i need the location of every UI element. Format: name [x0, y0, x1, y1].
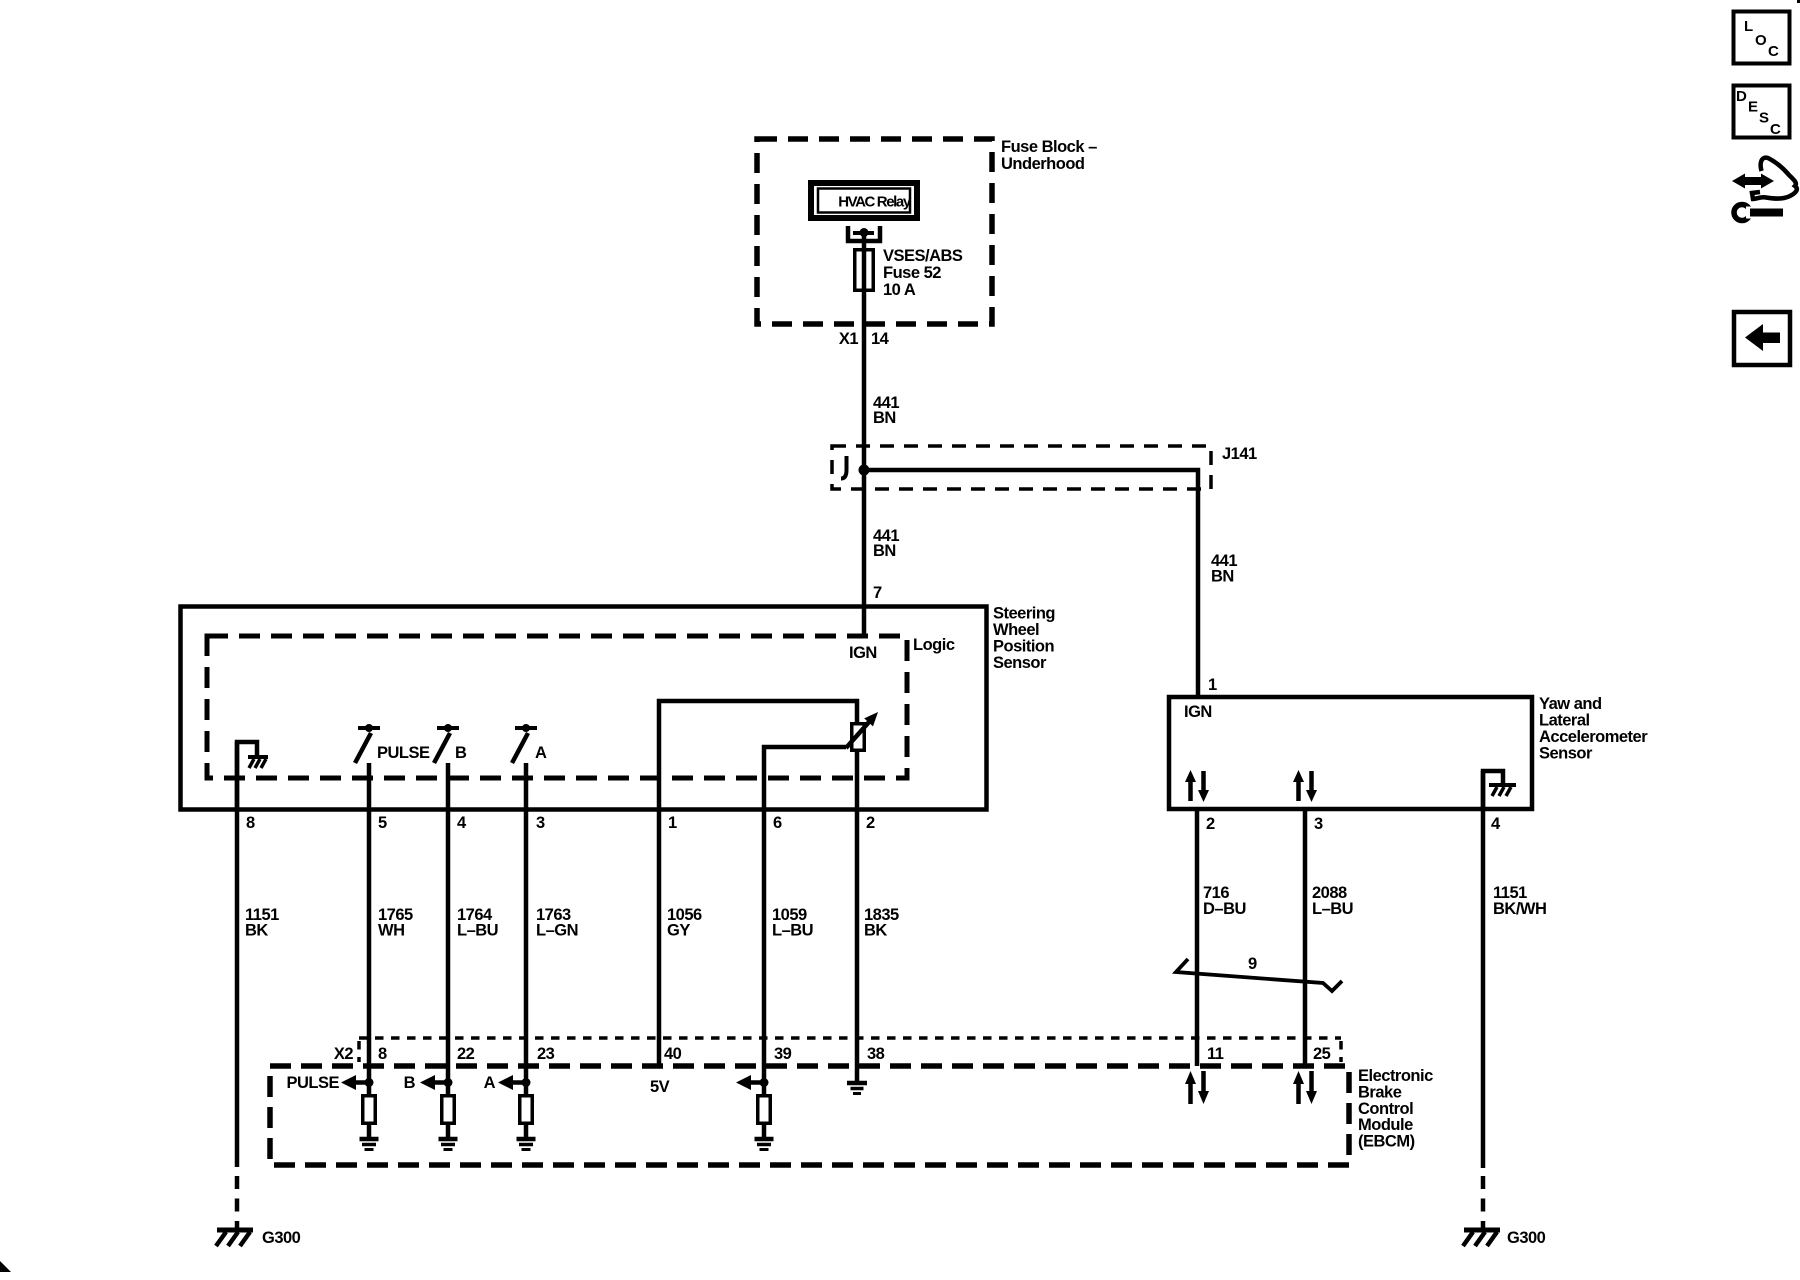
- logic dashed box: [207, 636, 907, 778]
- svg-text:4: 4: [1491, 815, 1501, 833]
- wire 1764 L-BU label: [457, 906, 498, 940]
- bidirectional signal arrows EBCM 11: [1185, 1071, 1209, 1104]
- svg-text:6: 6: [773, 814, 782, 832]
- wire yaw pin2 to EBCM 11: [1195, 809, 1200, 1066]
- wire yaw pin4 ground run: [1481, 771, 1486, 1230]
- resistor R pullup pin22: [442, 1096, 455, 1137]
- svg-text:10 A: 10 A: [883, 281, 916, 299]
- svg-text:Module: Module: [1358, 1116, 1413, 1134]
- splice J141 dashed box: [832, 446, 1211, 489]
- svg-text:7: 7: [873, 584, 882, 602]
- wire yaw pin3 to EBCM 25: [1303, 809, 1308, 1066]
- wire 441 BN label right branch: [1211, 552, 1237, 586]
- ground symbol below R pin8: [360, 1139, 379, 1150]
- svg-text:Sensor: Sensor: [1539, 745, 1593, 763]
- wire 441 BN label lower left: [873, 527, 899, 560]
- svg-text:B: B: [404, 1074, 416, 1092]
- switch A: [512, 724, 547, 763]
- ground symbol below R pin39: [755, 1139, 774, 1150]
- svg-text:B: B: [455, 744, 467, 762]
- wire 716 D-BU label: [1203, 884, 1246, 918]
- wire pin4 B to EBCM 22: [446, 763, 451, 1094]
- wire 1763 L-GN label: [536, 906, 578, 940]
- fuse block underhood dashed box: [757, 139, 992, 324]
- svg-text:J141: J141: [1222, 445, 1257, 463]
- svg-text:BK/WH: BK/WH: [1493, 900, 1546, 918]
- wire sensor pin8 ground run: [235, 742, 240, 1230]
- svg-text:14: 14: [871, 330, 890, 348]
- potentiometer wiper feed wire: [764, 747, 846, 809]
- resistor R pullup pin23: [520, 1096, 533, 1137]
- svg-text:1: 1: [668, 814, 677, 832]
- resistor R pullup pin39: [758, 1096, 771, 1137]
- bidirectional signal arrows yaw pin3: [1293, 770, 1317, 802]
- wire 1059 L-BU label: [772, 906, 813, 940]
- ground symbol below R pin23: [517, 1139, 536, 1150]
- svg-text:Position: Position: [993, 638, 1055, 656]
- svg-text:Accelerometer: Accelerometer: [1539, 728, 1648, 746]
- sensor pin labels 8 5 4 3 1 6 2: [246, 814, 875, 832]
- svg-text:40: 40: [664, 1045, 682, 1063]
- svg-text:IGN: IGN: [849, 644, 877, 662]
- svg-text:X1: X1: [839, 330, 859, 348]
- wire pin6 into EBCM 39: [762, 809, 767, 1094]
- wire pin1 to EBCM 40: [657, 809, 662, 1066]
- wire branch from J141 to yaw sensor: [864, 470, 1198, 697]
- internal ground hook yaw sensor: [1483, 771, 1516, 809]
- twisted pair symbol 9: [1176, 955, 1342, 991]
- wire pin2 pot to EBCM 38: [855, 752, 860, 1081]
- svg-text:VSES/ABS: VSES/ABS: [883, 247, 963, 265]
- svg-text:BN: BN: [873, 542, 896, 560]
- svg-text:L–BU: L–BU: [457, 922, 498, 940]
- ground symbol below R pin22: [439, 1139, 458, 1150]
- svg-text:D: D: [1736, 88, 1747, 105]
- logic label: [913, 636, 955, 654]
- signal arrow A: [484, 1074, 531, 1092]
- splice clip symbol: [841, 456, 847, 479]
- svg-text:Steering: Steering: [993, 605, 1055, 623]
- page corner mark top right: [1797, 0, 1800, 3]
- svg-text:A: A: [535, 744, 547, 762]
- svg-text:D–BU: D–BU: [1203, 900, 1246, 918]
- svg-text:Lateral: Lateral: [1539, 712, 1590, 730]
- svg-text:23: 23: [537, 1045, 555, 1063]
- svg-text:Logic: Logic: [913, 636, 955, 654]
- icon back arrow box: [1734, 312, 1790, 365]
- wire 1056 GY label: [667, 906, 702, 940]
- wire 2088 L-BU label: [1312, 884, 1353, 918]
- switch B: [434, 724, 467, 763]
- svg-text:A: A: [484, 1074, 496, 1092]
- yaw and lateral accelerometer sensor box: [1169, 697, 1532, 809]
- EBCM label: [1358, 1067, 1433, 1151]
- page corner mark bottom left: [0, 1261, 11, 1272]
- wire 1151 BK label: [245, 906, 279, 940]
- ground G300 right: [1463, 1229, 1546, 1247]
- wire 1835 BK label: [864, 906, 899, 940]
- wire pin5 PULSE to EBCM 8: [367, 763, 372, 1094]
- signal arrow PULSE: [286, 1074, 373, 1092]
- svg-text:11: 11: [1207, 1045, 1224, 1063]
- steering wheel position sensor box: [181, 607, 987, 810]
- resistor R pullup pin8: [363, 1096, 376, 1137]
- fuse 52 value label: [883, 247, 963, 299]
- node IGN steering sensor: [849, 644, 877, 662]
- svg-text:L: L: [1744, 18, 1753, 35]
- electronic brake control module dashed box: [270, 1066, 1349, 1165]
- svg-text:4: 4: [457, 814, 467, 832]
- junction dot J141: [859, 465, 870, 476]
- svg-text:HVAC Relay: HVAC Relay: [838, 194, 912, 211]
- svg-text:G300: G300: [262, 1229, 301, 1247]
- yaw pin labels 2 3 4: [1206, 815, 1501, 833]
- pin 7 label: [873, 584, 882, 602]
- ground G300 left: [216, 1229, 301, 1247]
- svg-text:Electronic: Electronic: [1358, 1067, 1433, 1085]
- splice J141 label: [1222, 445, 1257, 463]
- pin 1 label yaw: [1208, 676, 1217, 694]
- potentiometer R position sensor: [846, 712, 878, 750]
- svg-text:L–BU: L–BU: [1312, 900, 1353, 918]
- wire 441 BN label upper: [873, 394, 899, 427]
- svg-text:BK: BK: [864, 922, 887, 940]
- switch PULSE: [355, 724, 430, 763]
- svg-text:(EBCM): (EBCM): [1358, 1133, 1415, 1151]
- icon DESC box: [1734, 86, 1790, 139]
- svg-text:G300: G300: [1507, 1229, 1546, 1247]
- potentiometer loop top wire: [659, 701, 857, 809]
- svg-text:Underhood: Underhood: [1001, 155, 1085, 173]
- bidirectional signal arrows EBCM 25: [1293, 1071, 1317, 1104]
- connector X1 pin 14 labels: [839, 330, 890, 348]
- svg-text:2: 2: [866, 814, 875, 832]
- svg-text:Sensor: Sensor: [993, 654, 1047, 672]
- svg-text:Wheel: Wheel: [993, 621, 1039, 639]
- svg-text:8: 8: [378, 1045, 387, 1063]
- connector X2 dotted line: [359, 1038, 1341, 1062]
- svg-text:GY: GY: [667, 922, 690, 940]
- svg-text:WH: WH: [378, 922, 405, 940]
- svg-text:BN: BN: [873, 409, 896, 427]
- yaw sensor label: [1539, 695, 1648, 763]
- signal arrow B: [404, 1074, 453, 1092]
- svg-text:L–GN: L–GN: [536, 922, 578, 940]
- ground symbol pin38: [847, 1083, 867, 1094]
- connector X2 label: [334, 1045, 354, 1063]
- svg-text:L–BU: L–BU: [772, 922, 813, 940]
- wire pin3 A to EBCM 23: [524, 763, 529, 1094]
- relay K HVAC Relay: [811, 183, 917, 218]
- svg-text:C: C: [1770, 121, 1781, 138]
- svg-text:C: C: [1768, 43, 1779, 60]
- svg-text:25: 25: [1313, 1045, 1331, 1063]
- svg-text:IGN: IGN: [1184, 703, 1212, 721]
- svg-text:3: 3: [1314, 815, 1323, 833]
- svg-text:2: 2: [1206, 815, 1215, 833]
- svg-text:O: O: [1755, 32, 1767, 49]
- svg-text:3: 3: [536, 814, 545, 832]
- svg-text:E: E: [1748, 99, 1758, 116]
- svg-text:5V: 5V: [650, 1078, 670, 1096]
- wire 1151 BK/WH label: [1493, 884, 1546, 918]
- svg-text:8: 8: [246, 814, 255, 832]
- svg-text:X2: X2: [334, 1045, 354, 1063]
- internal ground hook steering sensor: [237, 742, 268, 809]
- connector terminal below relay: [846, 226, 882, 241]
- steering wheel position sensor label: [993, 605, 1055, 673]
- icon LOC box: [1734, 12, 1790, 64]
- node IGN yaw sensor: [1184, 703, 1212, 721]
- svg-text:Control: Control: [1358, 1100, 1413, 1118]
- svg-text:Fuse Block –: Fuse Block –: [1001, 138, 1097, 156]
- svg-text:PULSE: PULSE: [377, 744, 430, 762]
- svg-text:39: 39: [774, 1045, 792, 1063]
- svg-text:PULSE: PULSE: [286, 1074, 339, 1092]
- fuse block label: [1001, 138, 1097, 173]
- svg-text:Brake: Brake: [1358, 1083, 1402, 1101]
- svg-text:Yaw and: Yaw and: [1539, 695, 1602, 713]
- svg-text:S: S: [1759, 110, 1769, 127]
- svg-text:1: 1: [1208, 676, 1217, 694]
- svg-text:BK: BK: [245, 922, 268, 940]
- icon connector tool: [1732, 158, 1797, 221]
- svg-text:Fuse 52: Fuse 52: [883, 264, 941, 282]
- fuse F52 VSES/ABS 10A: [855, 250, 874, 291]
- svg-text:BN: BN: [1211, 568, 1234, 586]
- EBCM pin number labels: [378, 1045, 1331, 1063]
- svg-text:9: 9: [1248, 955, 1257, 973]
- node 5V label: [650, 1078, 670, 1096]
- wire 1765 WH label: [378, 906, 413, 940]
- svg-text:5: 5: [378, 814, 387, 832]
- bidirectional signal arrows yaw pin2: [1185, 770, 1209, 802]
- svg-text:38: 38: [867, 1045, 885, 1063]
- wire from relay through fuse to sensor pin 7: [862, 232, 867, 638]
- svg-text:22: 22: [457, 1045, 475, 1063]
- signal arrow pin 39: [736, 1075, 769, 1090]
